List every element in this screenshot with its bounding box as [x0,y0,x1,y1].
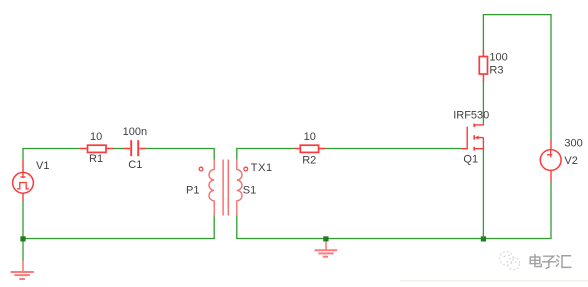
resistor R3 [479,50,487,82]
svg-text:S1: S1 [243,185,256,197]
faint page divider line bottom right [400,280,588,281]
svg-text:P1: P1 [186,185,199,197]
watermark logo circles [500,252,520,270]
svg-text:R1: R1 [89,153,103,165]
wire transformer primary bottom to bottom-left rail [23,215,214,239]
char 电 [534,255,536,264]
svg-text:10: 10 [304,131,316,143]
wire secondary bottom to bottom rail right [237,182,551,239]
node junction Q1 source bottom rail [481,236,486,241]
wire V1 bottom to ground [22,201,24,261]
svg-text:Q1: Q1 [463,153,478,165]
resistor R2 [295,145,326,152]
transformer core [223,160,228,216]
char 子 [544,256,554,261]
wire top-left V1 to R1 [23,149,81,160]
ground (left, under V1) [11,261,34,279]
wire secondary top to R2 [237,149,295,161]
wire C1 to transformer primary top [146,149,215,161]
svg-text:100n: 100n [123,126,147,138]
svg-text:C1: C1 [128,159,142,171]
svg-text:IRF530: IRF530 [453,109,489,121]
ground (center, bottom rail) [315,241,338,257]
svg-text:V1: V1 [36,160,49,172]
node junction V1 bottom rail [20,236,25,241]
transformer TX1 primary winding P1 [209,159,214,215]
svg-text:R2: R2 [302,155,316,167]
capacitor C1 [124,140,146,156]
MOSFET Q1 IRF530 [461,124,483,151]
voltage source V2 (DC 300) [540,140,561,182]
wire Q1 source down [482,149,484,239]
watermark text 电子汇 (drawn strokes) [530,255,571,269]
voltage source V1 (pulse) [13,159,34,200]
phase dot primary [199,167,203,171]
node junction center ground [323,236,328,241]
wire Q1 drain up to R3 [482,82,484,126]
svg-text:300: 300 [564,138,582,150]
svg-text:R3: R3 [489,65,503,77]
svg-text:V2: V2 [564,155,577,167]
svg-text:100: 100 [489,51,507,63]
svg-text:TX1: TX1 [251,162,273,174]
phase dot secondary [244,167,248,171]
transformer TX1 secondary winding S1 [237,159,242,215]
wire R1 to C1 [113,148,124,150]
svg-text:10: 10 [90,131,102,143]
wire R3 top to V2 top (top rail) [483,15,551,140]
char 汇 [556,256,559,267]
wire R2 to Q1 gate [325,148,462,150]
resistor R1 [80,145,113,152]
